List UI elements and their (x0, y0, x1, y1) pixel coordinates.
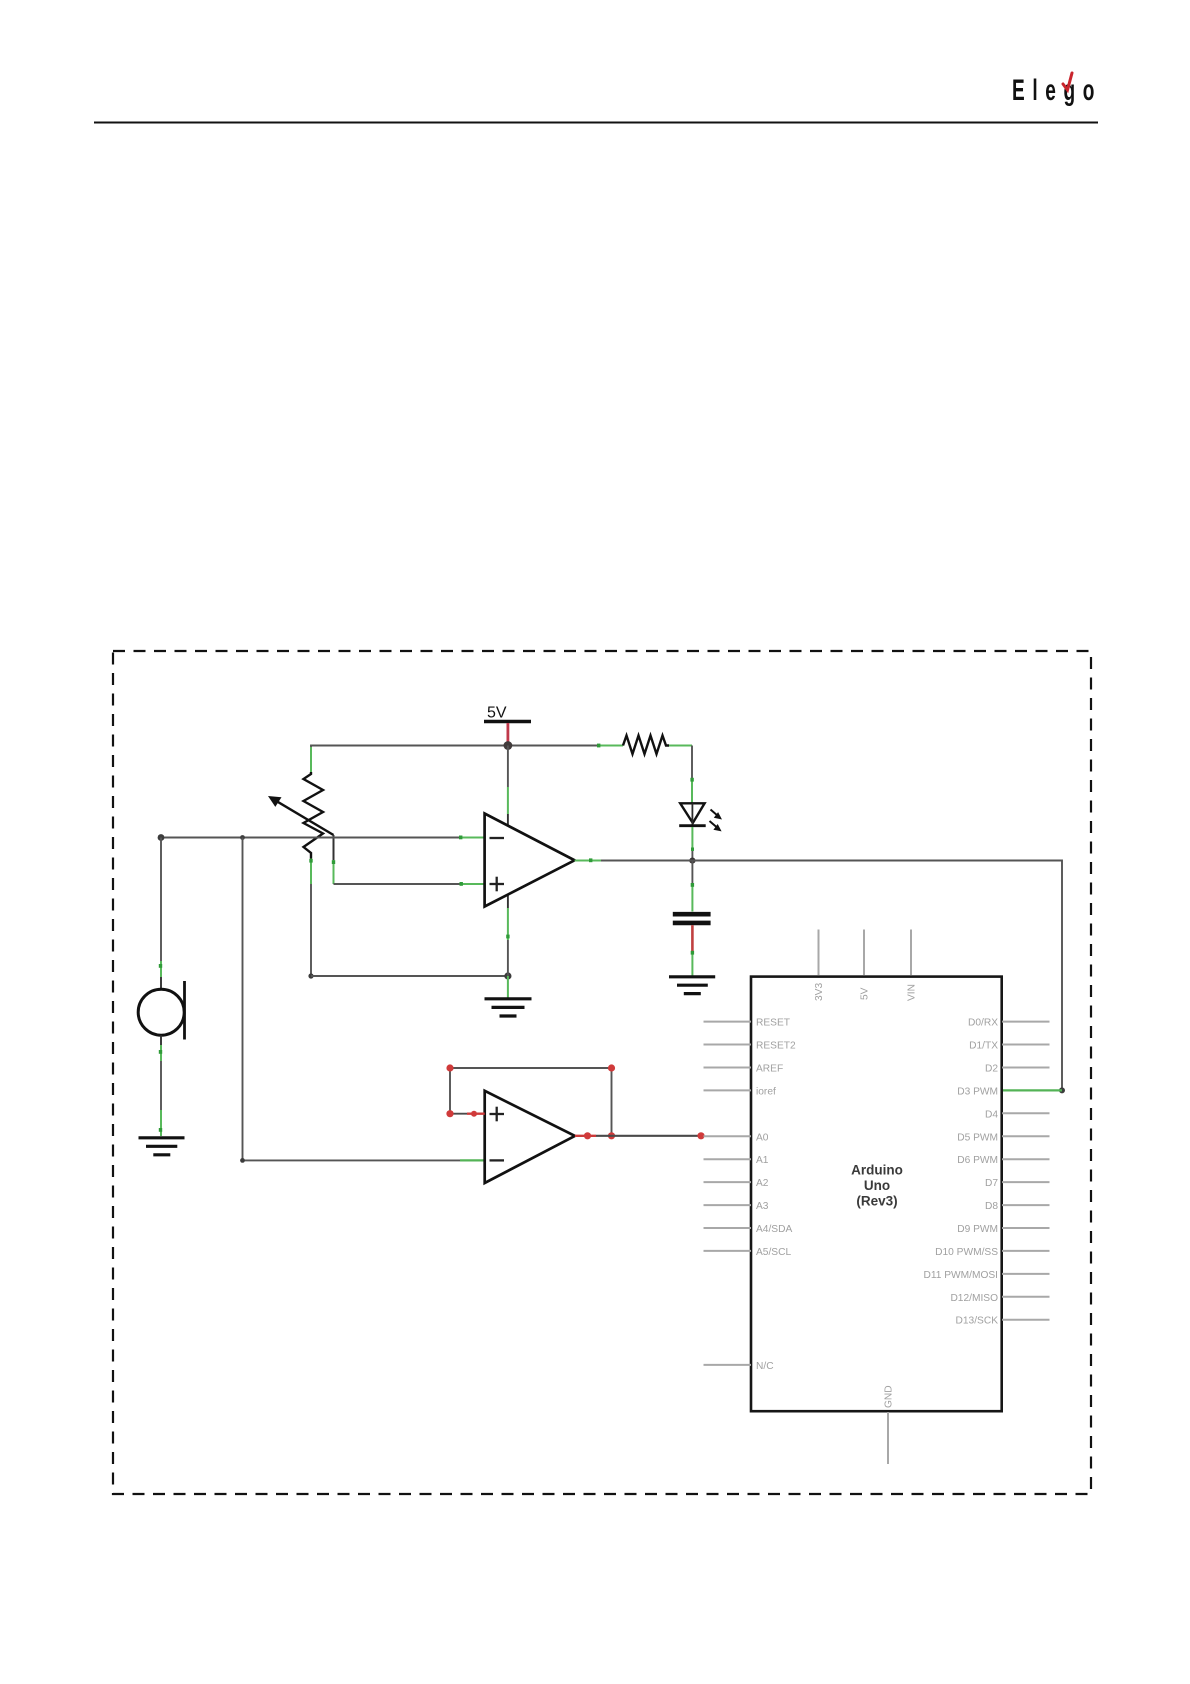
svg-text:VIN: VIN (907, 984, 918, 1001)
wire: 5V top rail (311, 746, 598, 772)
wire: bottom rail to U1 V- (311, 975, 508, 977)
resistor R1 (597, 736, 692, 755)
node: U2 output red dots (584, 1132, 705, 1139)
svg-text:Uno: Uno (864, 1178, 890, 1193)
pin A2 (704, 1178, 769, 1189)
pin D7 (985, 1178, 1050, 1189)
wire: pot bottom to bottom rail (310, 884, 312, 976)
logo red accent (1063, 73, 1072, 90)
pin GND (884, 1385, 895, 1464)
pin D2 (985, 1064, 1050, 1075)
svg-text:RESET2: RESET2 (756, 1041, 796, 1052)
pin ioref (704, 1086, 776, 1097)
svg-text:A5/SCL: A5/SCL (756, 1247, 791, 1258)
svg-text:N/C: N/C (756, 1361, 774, 1372)
microphone MK1 (138, 981, 184, 1040)
wire: green to D3 PWM (1003, 1089, 1062, 1091)
wire: mic net down to U2 inverting input (240, 838, 484, 1163)
svg-text:Arduino: Arduino (851, 1163, 903, 1178)
svg-text:AREF: AREF (756, 1064, 783, 1075)
header rule (94, 122, 1098, 124)
pin D5 PWM (957, 1132, 1049, 1143)
wire: junction down to op-amp U1 V+ (507, 746, 509, 828)
svg-text:(Rev3): (Rev3) (856, 1194, 897, 1209)
wire: junction down to microphone (159, 838, 162, 990)
dashed frame (113, 651, 1091, 1494)
pin 5V (860, 930, 871, 1001)
op-amp U2 (485, 1091, 575, 1183)
node: D3 wire end (1059, 1087, 1065, 1093)
node: LED/output junction (689, 858, 695, 864)
svg-text:D10 PWM/SS: D10 PWM/SS (935, 1247, 998, 1258)
svg-text:D12/MISO: D12/MISO (950, 1293, 998, 1304)
wire: pot wiper to U1 non-inverting input (334, 882, 485, 886)
svg-text:D13/SCK: D13/SCK (956, 1316, 999, 1327)
pin N/C (704, 1361, 774, 1372)
svg-text:5V: 5V (860, 987, 871, 1000)
pin 3V3 (814, 930, 825, 1002)
svg-text:3V3: 3V3 (814, 983, 825, 1001)
node: U1 V- junction (504, 972, 511, 979)
node: mic net junction (158, 834, 165, 841)
pin A4/SDA (704, 1224, 793, 1235)
svg-text:D6 PWM: D6 PWM (957, 1155, 998, 1166)
LED D1 (679, 803, 722, 831)
capacitor C1 (673, 914, 711, 975)
pin RESET2 (704, 1041, 796, 1052)
wire: microphone to ground (159, 1035, 162, 1136)
svg-text:D9 PWM: D9 PWM (957, 1224, 998, 1235)
wire: resistor to LED (690, 746, 693, 804)
node: 5V junction (504, 741, 513, 750)
svg-text:Elego: Elego (1012, 74, 1102, 107)
pin D10 PWM/SS (935, 1247, 1049, 1258)
pin D1/TX (969, 1041, 1049, 1052)
pin D8 (985, 1201, 1050, 1212)
pin RESET (704, 1018, 790, 1029)
Arduino Uno U3 body (751, 977, 1002, 1412)
svg-text:D3 PWM: D3 PWM (957, 1086, 998, 1097)
pin A0 (704, 1132, 769, 1143)
pin AREF (704, 1064, 784, 1075)
node: mic net tap (240, 835, 245, 840)
wire: U2 feedback loop (450, 1068, 612, 1136)
pin D12/MISO (950, 1293, 1049, 1304)
svg-text:A3: A3 (756, 1201, 769, 1212)
wire: junction to capacitor (691, 861, 694, 912)
svg-text:ioref: ioref (756, 1086, 776, 1097)
pin D6 PWM (957, 1155, 1049, 1166)
pin D3 PWM (957, 1086, 998, 1097)
svg-text:D5 PWM: D5 PWM (957, 1132, 998, 1143)
svg-text:GND: GND (884, 1385, 895, 1408)
logo Elego (1012, 74, 1102, 107)
pin D13/SCK (956, 1316, 1050, 1327)
svg-text:A0: A0 (756, 1132, 769, 1143)
ground GND2 (capacitor) (669, 977, 715, 994)
pin A1 (704, 1155, 769, 1166)
node: feedback corner red dots (446, 1064, 615, 1139)
node: pot bottom rail corner (308, 973, 313, 978)
svg-text:D0/RX: D0/RX (968, 1018, 998, 1029)
svg-text:D7: D7 (985, 1178, 998, 1189)
potentiometer RP1 (268, 747, 335, 884)
svg-text:D8: D8 (985, 1201, 998, 1212)
svg-text:D2: D2 (985, 1064, 998, 1075)
svg-text:A2: A2 (756, 1178, 769, 1189)
wire: U2 output to A0 (575, 1135, 701, 1137)
wire: U1 output (575, 858, 1062, 1090)
svg-text:D11 PWM/MOSI: D11 PWM/MOSI (923, 1270, 998, 1281)
svg-text:D1/TX: D1/TX (969, 1041, 998, 1052)
wire: LED cathode to output net (691, 827, 694, 861)
pin D11 PWM/MOSI (923, 1270, 1049, 1281)
ground GND1 (op-amp) (485, 999, 532, 1016)
pin D4 (985, 1109, 1050, 1120)
svg-text:A4/SDA: A4/SDA (756, 1224, 792, 1235)
pin VIN (907, 930, 918, 1002)
pin D0/RX (968, 1018, 1050, 1029)
svg-text:A1: A1 (756, 1155, 769, 1166)
wire: mic net horizontal (U1 inverting input) (161, 836, 485, 840)
ground GND3 (microphone) (139, 1138, 185, 1155)
pin A3 (704, 1201, 769, 1212)
op-amp U1 (485, 814, 575, 907)
svg-text:5V: 5V (487, 705, 507, 722)
svg-text:D4: D4 (985, 1109, 998, 1120)
wire: U1 bottom power pin (506, 895, 509, 998)
pin D9 PWM (957, 1224, 1049, 1235)
svg-text:RESET: RESET (756, 1018, 790, 1029)
pin A5/SCL (704, 1247, 792, 1258)
power symbol 5V (484, 705, 531, 744)
